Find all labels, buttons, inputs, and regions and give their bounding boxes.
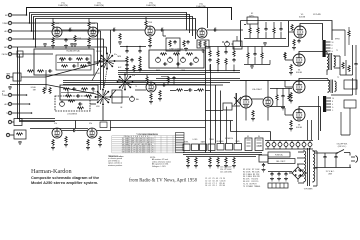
svg-text:16: 16 — [332, 42, 334, 44]
ground V2B grid — [98, 144, 102, 147]
ground fil1 — [208, 165, 212, 168]
resistor chain left4 — [139, 63, 141, 70]
box switch 3 — [234, 144, 242, 151]
feedback network A — [340, 45, 353, 75]
heater lamp 3 — [278, 141, 282, 150]
jack J9 — [5, 102, 30, 106]
wire top bus 5 — [36, 19, 196, 48]
resistor grid A3 — [119, 33, 121, 40]
tube V1A — [52, 27, 62, 37]
svg-text:SPKR: SPKR — [335, 39, 340, 41]
capacitor V3B coupling — [162, 83, 166, 86]
wire rc top — [205, 46, 240, 48]
tube V2B — [87, 128, 97, 138]
wire columns right of V8 — [308, 96, 319, 140]
resistor V2B grid — [99, 136, 101, 143]
capacitor eqB2 — [76, 94, 80, 97]
svg-text:12AX7(M): 12AX7(M) — [94, 4, 104, 7]
ground eq A top — [43, 43, 47, 46]
wire V3A out — [155, 29, 197, 31]
wire V4A out — [207, 29, 243, 31]
jack J10 — [6, 111, 32, 115]
wire V3B out — [156, 84, 223, 86]
box tone control — [149, 49, 204, 69]
wire V7 grid — [285, 81, 293, 88]
svg-text:S3: S3 — [247, 136, 249, 138]
heater lamp 8 — [308, 141, 312, 150]
resistor J12 — [16, 133, 23, 135]
wire crossing — [232, 93, 241, 106]
wire fb v3a — [163, 30, 166, 36]
terminal strip A — [323, 39, 341, 58]
dot pepper d — [217, 70, 219, 72]
wire drop x215 — [215, 85, 217, 144]
resistor dc3 — [261, 47, 263, 65]
ground V7 — [289, 100, 293, 103]
resistor chain left — [126, 56, 128, 63]
svg-text:LOUDNESS: LOUDNESS — [67, 114, 78, 116]
ground eq B top — [70, 43, 74, 46]
wire V4A vert — [207, 8, 209, 29]
svg-text:.02: .02 — [69, 28, 71, 30]
capacitor chain left3 — [125, 63, 128, 67]
wire top right r — [348, 27, 350, 45]
svg-text:6L6GB: 6L6GB — [296, 127, 303, 129]
box damping right of V8 — [344, 100, 356, 108]
svg-text:TUNER: TUNER — [2, 23, 9, 25]
resistor mid-left2 — [37, 70, 44, 72]
svg-text:C15 .005 DISC: C15 .005 DISC — [220, 171, 233, 173]
capacitor mid net — [188, 88, 192, 91]
box filter sw C — [200, 144, 207, 151]
parts list 1c — [220, 167, 233, 174]
rotary switch S1C — [93, 89, 111, 105]
svg-text:S1a: S1a — [114, 54, 117, 56]
capacitor chain left — [125, 49, 128, 53]
heater lamp 7 — [302, 141, 306, 150]
box output stage A enclosure — [241, 21, 333, 47]
capacitor pepper 1 — [130, 58, 133, 62]
wire V6 grid — [285, 52, 293, 60]
jack J4 — [6, 37, 104, 41]
resistor V1A cathode — [52, 37, 54, 44]
resistor V2A cathode — [88, 37, 90, 44]
resistor eqB3 — [65, 95, 72, 97]
capacitor V3A coupling — [160, 28, 164, 32]
pot bass A — [156, 57, 161, 72]
ground V1B grid — [64, 144, 68, 147]
svg-text:T1: T1 — [336, 50, 338, 52]
resistor eq4 — [80, 65, 87, 67]
svg-text:SET: SET — [33, 90, 36, 92]
resistor fil 0a — [187, 157, 189, 164]
box loudness — [55, 96, 90, 116]
wire v3b net top — [161, 77, 174, 86]
svg-text:S1b: S1b — [132, 75, 135, 77]
resistor loudness — [68, 100, 75, 102]
box near S1B — [112, 90, 122, 103]
resistor outA 2 — [257, 22, 259, 38]
box filter sw B — [192, 144, 199, 151]
ground V2A — [87, 45, 91, 48]
wire V5 grid — [289, 31, 295, 33]
svg-text:8: 8 — [332, 45, 333, 47]
capacitor can 3 — [284, 172, 287, 176]
jack J3 — [5, 29, 101, 33]
resistor V4A left cluster — [183, 40, 185, 47]
footnote cluster 2 — [150, 157, 171, 168]
jack J8 — [2, 93, 26, 97]
component right of bus — [259, 155, 268, 162]
resistor v4b right 1 — [276, 88, 278, 106]
dot pepper c — [210, 70, 212, 72]
wire drop to selector — [110, 30, 112, 54]
box switch 2 — [226, 144, 233, 151]
junction dots bundle — [26, 14, 28, 16]
wire bus drop x103 — [103, 39, 105, 88]
resistor eqB2 — [81, 88, 88, 90]
wire v4b right bus — [270, 89, 292, 107]
wire AC line top — [315, 152, 337, 154]
svg-text:.02: .02 — [113, 28, 115, 30]
heater lamp 6 — [296, 141, 300, 150]
wire eqA out — [94, 61, 103, 63]
svg-text:LOUD: LOUD — [193, 139, 198, 141]
ground dc — [250, 65, 254, 68]
svg-text:TREB: TREB — [209, 139, 214, 141]
wire nest to output area — [63, 81, 330, 85]
svg-text:(ON VOL.): (ON VOL.) — [338, 146, 347, 148]
resistor eqB1 — [63, 88, 70, 90]
svg-text:Harman-Kardon: Harman-Kardon — [31, 168, 72, 175]
wire tape feed down left 2 — [20, 54, 56, 122]
rotary switch S1A — [99, 53, 117, 69]
resistor mid net 1 — [176, 89, 183, 91]
resistor V2A plate — [88, 18, 96, 30]
parts list 1 — [205, 178, 225, 187]
ground fil0a — [186, 165, 190, 168]
wire trans right taps — [313, 151, 317, 186]
svg-text:12AX7(M): 12AX7(M) — [58, 4, 68, 7]
svg-text:TUNER: TUNER — [2, 95, 9, 97]
wire drop x226 x236 — [227, 93, 237, 144]
wire V2B out — [97, 121, 111, 131]
resistor rc1 — [208, 47, 211, 71]
jack J5 — [4, 45, 107, 49]
rotary switch S1B — [117, 74, 135, 90]
svg-text:PHONO: PHONO — [96, 51, 103, 53]
resistor V5 cathode — [293, 39, 295, 46]
box switch 4 — [245, 136, 252, 151]
resistor fil 2 — [217, 157, 219, 164]
wire V7 plate — [299, 79, 328, 82]
capacitor tone3 — [189, 62, 193, 65]
wire eqB internal — [61, 90, 94, 96]
box fuse label — [268, 152, 290, 157]
svg-text:Voltages +/- 10%: Voltages +/- 10% — [152, 165, 166, 168]
transformer T3 power — [304, 148, 315, 191]
plug AC — [350, 153, 358, 168]
box level set — [13, 73, 21, 81]
box phono pad — [17, 51, 23, 57]
svg-text:SEL. RECT.: SEL. RECT. — [276, 161, 286, 163]
pot bass B — [168, 57, 173, 63]
wire vert divider tone box — [177, 50, 179, 68]
box note left of table — [100, 122, 107, 128]
resistor V5 screen — [291, 24, 293, 31]
svg-text:G: G — [332, 51, 334, 53]
svg-text:V5 PLATE: V5 PLATE — [313, 13, 322, 16]
wire V8 grid — [285, 108, 293, 115]
ground fil4 — [232, 165, 236, 168]
wire heater bus bottom — [265, 148, 313, 150]
svg-text:T3 POWER: T3 POWER — [304, 189, 314, 191]
resistor tone2 — [173, 53, 180, 55]
svg-text:EQUALIZER (A): EQUALIZER (A) — [66, 50, 79, 53]
capacitor eq2 — [72, 64, 76, 67]
wire h connector y110 — [206, 110, 224, 112]
ground J12 — [18, 141, 22, 144]
resistor small b2 — [43, 87, 45, 94]
ground V4A — [201, 49, 205, 52]
tube V3B — [146, 82, 156, 92]
pot balance — [130, 96, 140, 102]
svg-text:V4b 12AU7: V4b 12AU7 — [252, 88, 262, 91]
ground v4b k — [251, 118, 255, 121]
junction dots B — [26, 94, 28, 96]
capacitor loudness — [78, 102, 82, 105]
wire drop x210 — [210, 64, 212, 153]
heater lamp 2 — [272, 141, 276, 150]
capacitor A cl — [64, 38, 67, 42]
capacitor eq1b — [85, 57, 89, 60]
svg-text:8: 8 — [332, 101, 333, 103]
dot pepper a — [126, 46, 128, 48]
tube V4B-2 — [263, 97, 273, 107]
ground V3B — [149, 101, 153, 104]
svg-text:4: 4 — [332, 48, 333, 50]
box V4A cathode — [197, 40, 209, 48]
box barrier strip — [268, 183, 288, 188]
capacitor coupling B — [72, 129, 76, 132]
resistor V3A cathode — [149, 37, 151, 44]
svg-text:C4 .01 C8 .1 C12 40: C4 .01 C8 .1 C12 40 — [205, 185, 225, 187]
svg-text:Model A250 stereo amplifier sy: Model A250 stereo amplifier system. — [31, 180, 98, 185]
jack J1 — [5, 13, 27, 17]
svg-text:TV: TV — [135, 86, 138, 88]
resistor rc2 — [217, 47, 219, 71]
resistor V2B cathode — [87, 139, 89, 146]
wire V2A out — [98, 29, 145, 31]
pot treble A — [181, 57, 186, 72]
svg-text:0 270 22 250 250 0 270 170: 0 270 22 250 250 0 270 170 — [131, 151, 153, 153]
resistor eq2 — [76, 58, 83, 60]
svg-text:PHONO: PHONO — [2, 54, 9, 56]
wire h y78.5 — [156, 78, 240, 80]
terminal strip B — [323, 96, 334, 112]
resistor V4A k1 — [199, 41, 201, 48]
resistor top right — [348, 30, 350, 37]
wire top bus 4 — [34, 17, 193, 40]
wire fb right edge — [355, 45, 357, 95]
resistor fil 1 — [209, 157, 211, 164]
ground V1B — [51, 147, 55, 150]
capacitor right bus — [262, 163, 265, 167]
svg-text:V8 6L6GB: V8 6L6GB — [122, 151, 131, 153]
wire tape feed down left 1 — [18, 47, 56, 119]
tube V7 — [293, 81, 305, 93]
wire bus drop x100 — [100, 31, 102, 90]
capacitor tone1 — [163, 62, 167, 65]
wire AC line bottom — [315, 167, 351, 169]
tube V4A — [197, 28, 207, 38]
svg-text:6.3V: 6.3V — [258, 146, 262, 148]
box rect label — [268, 159, 295, 164]
tube V3A — [145, 26, 155, 36]
resistor fb2 — [348, 65, 350, 72]
resistor v3b net 1 — [167, 76, 169, 83]
capacitor can 1 — [270, 172, 273, 176]
wire eq internal — [57, 57, 90, 67]
svg-text:TAPE: TAPE — [235, 140, 240, 143]
resistor V1B cathode — [52, 139, 54, 146]
pot treble B — [194, 57, 199, 63]
wire damping drops — [341, 108, 350, 135]
resistor pepper 2 — [133, 65, 135, 72]
tube V4B-1 — [240, 96, 252, 108]
wire V6 plate — [299, 52, 327, 55]
svg-text:from Radio & TV News, April 19: from Radio & TV News, April 1958 — [129, 179, 198, 184]
wire chains top — [120, 46, 146, 49]
capacitor v4b right — [281, 88, 284, 106]
resistor outA 3 — [273, 22, 275, 38]
capacitor outA 2 — [279, 22, 282, 38]
capacitor coupling A2 — [112, 28, 116, 32]
box filter sw D — [208, 144, 215, 151]
dot pepper b — [139, 46, 141, 48]
resistor loudness2 — [77, 107, 84, 109]
ground cap1 — [270, 178, 274, 181]
resistor v4b right 2 — [288, 88, 290, 101]
ground V6 — [289, 72, 293, 75]
wire switch link (mechanical, dashed) — [104, 69, 107, 88]
table rules — [112, 136, 185, 153]
heater lamp 1 — [266, 141, 270, 150]
svg-text:LEVEL: LEVEL — [183, 142, 188, 144]
ground fil2 — [216, 165, 220, 168]
ground V4A left — [184, 48, 188, 51]
resistor rc4 — [232, 47, 235, 71]
capacitor eqB1 — [72, 87, 76, 90]
wire drop x205 — [205, 47, 207, 153]
box bias — [233, 41, 242, 49]
capacitor V5 cathode — [297, 39, 300, 43]
resistor V3B plate — [146, 75, 148, 86]
resistor fil 0b — [195, 157, 197, 164]
wire V4B plates — [240, 81, 290, 100]
svg-text:4: 4 — [332, 104, 333, 106]
transformer T2 output B — [328, 77, 339, 93]
wire caps — [325, 153, 336, 168]
heater lamp 4 — [284, 141, 288, 150]
wire mid net — [170, 90, 210, 92]
svg-text:.02: .02 — [161, 28, 163, 30]
svg-text:TAPE: TAPE — [117, 55, 121, 58]
capacitor dc2 — [253, 47, 256, 65]
wire top bus 2 — [30, 13, 187, 31]
resistor fb1 — [342, 62, 344, 69]
ground grid A2 — [73, 43, 77, 46]
small box in output A — [247, 17, 258, 24]
wire dc bus — [244, 60, 270, 65]
svg-text:12AX7(M): 12AX7(M) — [146, 4, 156, 7]
resistor outA 1 — [249, 24, 251, 38]
resistor V3A aux — [169, 40, 171, 47]
svg-text:FUSE 2A.: FUSE 2A. — [275, 154, 283, 157]
wire top bus 1 — [27, 8, 232, 21]
tube V5 — [294, 26, 306, 38]
dot pepper e — [233, 70, 235, 72]
resistor tone1 — [160, 53, 167, 55]
wire power box top — [231, 121, 271, 141]
svg-text:6L6GB: 6L6GB — [299, 17, 306, 19]
svg-text:220K: 220K — [148, 22, 153, 24]
ground pepper tone2 — [138, 69, 142, 72]
svg-text:T3 POWER TRANS.: T3 POWER TRANS. — [243, 185, 261, 188]
resistor eqB4 — [85, 95, 92, 97]
jack J12 — [6, 133, 14, 136]
jack J7 — [6, 73, 13, 79]
wire top bus 3 — [32, 15, 190, 34]
resistor dc1 — [247, 47, 249, 65]
resistor mid net 2 — [197, 89, 204, 91]
svg-text:V1b: V1b — [54, 123, 57, 125]
wire diag into switch — [46, 63, 99, 94]
capacitor outA 1 — [264, 22, 267, 38]
jack J11 — [8, 120, 14, 123]
resistor eq3 — [61, 65, 68, 67]
svg-text:16: 16 — [332, 98, 334, 100]
capacitor eq3 — [87, 61, 90, 65]
box right top — [344, 80, 357, 89]
resistor tone3 — [186, 53, 193, 55]
tube V8 — [293, 109, 305, 121]
svg-text:6L6GB: 6L6GB — [296, 72, 303, 74]
wire selector couplings — [92, 61, 127, 97]
wire long feedback B — [20, 121, 233, 128]
box V4B input — [223, 103, 232, 110]
ground v4b — [281, 107, 285, 110]
ground pepper tone — [125, 68, 129, 71]
capacitor V4A out — [213, 28, 217, 32]
switch AC — [337, 150, 350, 154]
wire right col from top — [332, 30, 345, 56]
tube V2A — [88, 27, 98, 37]
capacitor mid-left — [48, 69, 52, 72]
svg-text:RUMBLE: RUMBLE — [216, 141, 224, 143]
resistor chain left2 — [139, 56, 141, 63]
resistor rc3 — [224, 47, 227, 71]
ground V1A — [51, 45, 55, 48]
box J12 pad — [14, 130, 26, 139]
capacitor coupling A1 — [68, 28, 72, 32]
ground grid A3 — [118, 41, 122, 44]
wire V4B down — [246, 107, 268, 121]
capacitor V4A left cluster — [186, 40, 189, 44]
ground fil0b — [194, 165, 198, 168]
footnote cluster 1 — [108, 155, 123, 167]
wire tone bus — [118, 71, 240, 75]
